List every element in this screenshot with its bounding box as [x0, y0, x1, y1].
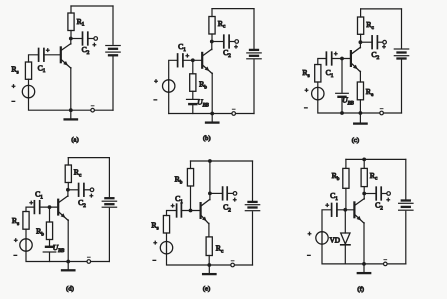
svg-text:C1: C1	[178, 42, 186, 53]
svg-text:−: −	[14, 253, 18, 260]
battery UBB (circuit d)	[43, 247, 56, 252]
wire C2 to terminal (d)	[84, 189, 90, 191]
wire battery lead top (c)	[401, 9, 403, 48]
label R1	[77, 17, 85, 28]
resistor Rb (base bias, circuit e)	[187, 161, 193, 211]
output terminal (d)	[90, 188, 94, 192]
macron above terminal (f)	[384, 259, 387, 261]
polarity - of source (e)	[152, 258, 156, 265]
circuit (e) top supply rail wire	[191, 160, 253, 162]
polarity - of source (d)	[14, 253, 18, 260]
wire battery lead top (f)	[405, 159, 407, 199]
wire battery lead bottom (a)	[112, 56, 114, 110]
bottom rail wire (f)	[364, 263, 406, 265]
node collector junction (c)	[359, 40, 363, 44]
bottom rail wire (c)	[342, 112, 402, 114]
wire source to bottom rail (a)	[29, 98, 71, 110]
resistor Rc (collector load, circuit c)	[358, 9, 364, 42]
svg-text:C2: C2	[375, 201, 383, 212]
wire base (c)	[332, 58, 351, 60]
wire collector to C2 (c)	[360, 41, 372, 43]
ground (circuit d)	[62, 262, 74, 271]
wire tap to C2 (e)	[210, 192, 223, 194]
wire battery lead top (e)	[252, 161, 254, 201]
polarity - of source (a)	[11, 99, 15, 106]
resistor Re (emitter, circuit c)	[357, 82, 363, 113]
svg-text:(b): (b)	[203, 135, 211, 142]
svg-text:(f): (f)	[357, 286, 364, 293]
polarity + of C2 (b)	[234, 44, 238, 51]
resistor Rb (base bias, circuit f)	[343, 159, 349, 209]
label C2 (d)	[78, 198, 86, 209]
svg-text:+: +	[46, 48, 50, 55]
node base junction (c)	[340, 57, 344, 61]
bottom rail wire (d)	[68, 261, 109, 263]
transistor Q (circuit e)	[201, 162, 210, 237]
transistor Q (circuit f)	[354, 194, 364, 264]
macron above terminal (b)	[232, 108, 235, 110]
capacitor C1 (input coupling, circuit b)	[178, 54, 183, 67]
node emitter junction (e)	[207, 263, 211, 267]
node base junction (e)	[189, 209, 193, 213]
node collector junction (b)	[210, 40, 214, 44]
label Rb (b)	[199, 80, 207, 91]
label Rc (d)	[74, 168, 82, 179]
caption (f)	[357, 286, 364, 293]
label C1 (c)	[326, 68, 334, 79]
label Rc (f)	[370, 171, 378, 182]
label UBB (b)	[197, 98, 208, 109]
svg-text:(c): (c)	[352, 137, 359, 144]
label Rc (c)	[366, 20, 374, 31]
signal source us (circuit e)	[160, 242, 172, 254]
bottom output terminal (f)	[384, 262, 388, 266]
wire C1 to Rs (a)	[29, 55, 39, 62]
resistor R1 (collector load, circuit a)	[68, 6, 74, 39]
wire battery lead bottom (d)	[108, 208, 110, 261]
label Rs	[11, 65, 18, 76]
svg-text:+: +	[334, 51, 338, 58]
wire source to bottom rail (c)	[318, 100, 342, 113]
label Re (c)	[366, 87, 374, 98]
label C1 (e)	[175, 194, 183, 205]
svg-text:+: +	[12, 84, 16, 91]
wire C1 to source (b)	[169, 60, 178, 80]
wire collector to C2 (a)	[71, 38, 83, 40]
output terminal (c)	[383, 40, 387, 44]
svg-text:+: +	[305, 88, 309, 95]
signal source us (circuit b)	[163, 80, 175, 92]
label C1	[38, 63, 46, 74]
svg-text:+: +	[308, 231, 312, 238]
bottom rail wire right (a)	[71, 109, 113, 111]
svg-text:C1: C1	[175, 194, 183, 205]
node collector junction (d)	[66, 188, 70, 192]
svg-text:(d): (d)	[66, 286, 74, 293]
svg-text:−: −	[304, 105, 308, 112]
polarity - of source (b)	[153, 97, 157, 104]
wire C2 to terminal (b)	[229, 41, 235, 43]
svg-text:Rc: Rc	[370, 171, 378, 182]
svg-text:+: +	[325, 203, 329, 210]
svg-text:+: +	[93, 42, 97, 49]
circuit (b) top supply rail wire	[212, 8, 254, 10]
bottom output terminal (e)	[231, 263, 235, 267]
svg-text:C2: C2	[78, 198, 86, 209]
polarity + of C2 (e)	[233, 197, 237, 204]
output terminal (e)	[233, 192, 237, 196]
polarity + of C1 (e)	[171, 203, 175, 210]
macron above terminal (e)	[231, 260, 234, 262]
wire UBB to bottom rail (b)	[192, 105, 194, 113]
signal source us (circuit a)	[22, 85, 34, 97]
node emitter junction (c)	[359, 111, 363, 115]
svg-text:+: +	[171, 203, 175, 210]
wire source to bottom rail (d)	[26, 251, 68, 261]
svg-text:Rs: Rs	[12, 216, 19, 227]
wire base (a)	[44, 54, 61, 56]
label Rc (b)	[218, 19, 226, 30]
svg-text:C2: C2	[223, 203, 231, 214]
label C1 (b)	[178, 42, 186, 53]
bottom output terminal (b)	[232, 112, 236, 116]
polarity + of source (d)	[14, 238, 18, 245]
polarity + of source (a)	[12, 84, 16, 91]
svg-text:UBB: UBB	[342, 96, 353, 107]
wire source to bottom rail (b)	[168, 92, 170, 113]
node base junction (d)	[48, 205, 52, 209]
wire battery lead bottom (c)	[401, 60, 403, 113]
caption (c)	[352, 137, 359, 144]
circuit (d) top supply rail wire	[68, 157, 109, 159]
wire Rb to UBB (b)	[192, 91, 194, 98]
diode VD (circuit f)	[341, 233, 350, 264]
wire base (e)	[181, 210, 200, 212]
label C2	[82, 45, 90, 56]
node emitter junction (d)	[66, 260, 70, 264]
wire battery lead top (b)	[253, 9, 255, 49]
ground (circuit b)	[206, 114, 218, 123]
battery UCC (circuit d)	[102, 198, 116, 207]
wire Rb column (b)	[192, 60, 194, 74]
label C1 (d)	[35, 190, 43, 201]
macron above terminal (d)	[87, 256, 90, 258]
svg-text:R1: R1	[77, 17, 85, 28]
svg-text:(e): (e)	[203, 286, 210, 293]
polarity + of C2 (f)	[386, 197, 390, 204]
svg-text:C1: C1	[326, 68, 334, 79]
svg-text:+: +	[382, 44, 386, 51]
svg-text:−: −	[11, 99, 15, 106]
wire C2 to terminal (f)	[381, 193, 387, 195]
battery UBB (circuit b)	[187, 99, 200, 104]
polarity + of source (e)	[153, 240, 157, 247]
node emitter junction (a)	[69, 108, 73, 112]
label Rs (d)	[12, 216, 19, 227]
wire C1 to Rs (d)	[26, 207, 34, 211]
resistor Rb (base bias, circuit b)	[190, 74, 196, 92]
battery UCC (circuit b)	[247, 50, 261, 59]
node collector junction (f)	[362, 192, 366, 196]
resistor Rb (base bias, circuit d)	[46, 222, 52, 240]
capacitor C1 (input coupling, circuit e)	[177, 204, 182, 217]
capacitor C2 (output coupling, circuit a)	[83, 32, 88, 45]
label UBB (c)	[342, 96, 353, 107]
svg-text:−: −	[307, 253, 311, 260]
svg-text:Rs: Rs	[151, 221, 158, 232]
caption (b)	[203, 135, 211, 142]
svg-text:VD: VD	[330, 236, 340, 244]
caption (d)	[66, 286, 74, 293]
capacitor C2 (output coupling, circuit c)	[372, 36, 377, 49]
wire base to UBB (c)	[341, 59, 343, 93]
svg-text:Rc: Rc	[218, 19, 226, 30]
node collector junction (a)	[69, 37, 73, 41]
polarity + of source (b)	[154, 79, 158, 86]
svg-text:+: +	[186, 53, 190, 60]
wire base (d)	[40, 206, 59, 208]
resistor Rc (emitter position, circuit e)	[206, 237, 212, 265]
node UBB-rail junction (c)	[340, 111, 344, 115]
label C2 (b)	[223, 48, 231, 59]
capacitor C2 (output coupling, circuit b)	[224, 35, 229, 48]
polarity + of C1 (d)	[29, 200, 33, 207]
label Rb (e)	[175, 175, 183, 186]
svg-text:C2: C2	[223, 48, 231, 59]
macron above terminal (a)	[91, 105, 94, 107]
bottom output terminal (a)	[91, 108, 95, 112]
transistor Q (circuit a)	[61, 39, 71, 110]
resistor Rs (source resistance, circuit c)	[315, 65, 321, 88]
svg-text:C1: C1	[330, 191, 338, 202]
label C1 (f)	[330, 191, 338, 202]
polarity + of C1 (b)	[186, 53, 190, 60]
wire C2 to terminal (e)	[227, 192, 233, 194]
caption (e)	[203, 286, 210, 293]
label Rb (d)	[36, 227, 44, 238]
wire collector to C2 (b)	[212, 41, 224, 43]
label C2 (c)	[371, 50, 379, 61]
node C2 tap junction (e)	[208, 192, 212, 196]
transistor Q (circuit b)	[202, 42, 212, 114]
output terminal (a)	[94, 37, 98, 41]
capacitor C1 (input coupling, circuit c)	[326, 52, 331, 65]
wire collector to C2 (f)	[364, 193, 376, 195]
node Rc-rail junction (f)	[362, 158, 366, 162]
wire C1 to Rs (c)	[318, 59, 327, 65]
resistor Rc (collector load, circuit b)	[209, 9, 215, 42]
battery UCC (circuit f)	[399, 201, 413, 211]
polarity + of C1 (f)	[325, 203, 329, 210]
wire collector to C2 (d)	[68, 189, 79, 191]
polarity + of source (f)	[308, 231, 312, 238]
capacitor C1 (input coupling, circuit a)	[39, 49, 44, 62]
svg-text:Rs: Rs	[302, 68, 309, 79]
svg-text:+: +	[153, 240, 157, 247]
transistor Q (circuit c)	[351, 43, 361, 82]
svg-text:Rc: Rc	[366, 20, 374, 31]
wire base to Rb (d)	[49, 207, 51, 222]
node base junction (b)	[191, 58, 195, 62]
wire Rb to UBB (d)	[49, 240, 51, 246]
svg-text:Re: Re	[366, 87, 374, 98]
ground (circuit a)	[65, 110, 77, 119]
bottom rail wire (b)	[169, 113, 254, 115]
wire battery lead bottom (e)	[252, 212, 254, 265]
svg-text:Rc: Rc	[74, 168, 82, 179]
wire source to bottom rail (f)	[322, 244, 364, 264]
node emitter junction (b)	[210, 112, 214, 116]
svg-text:−: −	[152, 258, 156, 265]
wire base (b)	[183, 59, 202, 61]
ground (circuit e)	[203, 265, 215, 274]
output terminal (f)	[387, 192, 391, 196]
circuit (f) top supply rail wire	[346, 158, 406, 160]
battery UCC (circuit c)	[394, 49, 408, 59]
label Rs (e)	[151, 221, 158, 232]
svg-text:+: +	[234, 44, 238, 51]
signal source us (circuit d)	[20, 239, 32, 251]
svg-text:C1: C1	[38, 63, 46, 74]
circuit (c) top supply rail wire	[361, 8, 402, 10]
polarity + of C2 (c)	[382, 44, 386, 51]
resistor Rc (collector load, circuit d)	[65, 158, 71, 190]
ground (circuit f)	[358, 264, 370, 273]
bottom output terminal (c)	[380, 111, 384, 115]
svg-text:−: −	[153, 97, 157, 104]
svg-text:Rb: Rb	[36, 227, 44, 238]
battery UBB (circuit c)	[336, 93, 349, 97]
resistor Rc (collector load, circuit f)	[361, 159, 367, 193]
polarity + of C2 (d)	[90, 193, 94, 200]
wire C1 to Rs (e)	[167, 211, 177, 216]
bottom output terminal (d)	[87, 260, 91, 264]
node base junction (f)	[343, 208, 347, 212]
node emitter junction (f)	[362, 262, 366, 266]
resistor Rs (source resistance, circuit e)	[163, 216, 169, 242]
bottom rail wire (e)	[209, 264, 252, 266]
capacitor C2 (output coupling, circuit f)	[376, 187, 381, 200]
wire C1 to source (f)	[322, 210, 332, 232]
signal source us (circuit f)	[316, 232, 328, 244]
battery UCC (circuit a)	[106, 46, 120, 56]
polarity + of C1 (c)	[334, 51, 338, 58]
svg-text:+: +	[233, 197, 237, 204]
battery UCC (circuit e)	[245, 202, 259, 211]
svg-text:+: +	[154, 79, 158, 86]
capacitor C2 (output coupling, circuit e)	[223, 187, 228, 200]
label Rs (c)	[302, 68, 309, 79]
wire C2 to output terminal (a)	[88, 38, 94, 40]
label UBB (d)	[53, 243, 64, 254]
label C2 (e)	[223, 203, 231, 214]
signal source us (circuit c)	[312, 87, 324, 99]
macron above terminal (c)	[380, 108, 383, 110]
polarity + of source (c)	[305, 88, 309, 95]
wire UBB to bottom rail (d)	[49, 253, 51, 262]
wire battery lead bottom (f)	[405, 211, 407, 264]
svg-text:Rb: Rb	[175, 175, 183, 186]
polarity - of source (c)	[304, 105, 308, 112]
svg-text:+: +	[90, 193, 94, 200]
ground (circuit c)	[354, 113, 366, 124]
svg-text:C1: C1	[35, 190, 43, 201]
label Rb (f)	[332, 171, 340, 182]
wire C2 to terminal (c)	[377, 41, 382, 43]
node collector-rail junction (e)	[208, 159, 212, 163]
transistor Q (circuit d)	[58, 191, 68, 262]
wire battery lead top (a)	[112, 6, 114, 44]
capacitor C2 (output coupling, circuit d)	[79, 184, 84, 197]
label Rc (e)	[216, 244, 224, 255]
label C2 (f)	[375, 201, 383, 212]
polarity - of source (f)	[307, 253, 311, 260]
svg-text:Rc: Rc	[216, 244, 224, 255]
svg-text:C2: C2	[82, 45, 90, 56]
svg-text:Rb: Rb	[332, 171, 340, 182]
svg-text:UBB: UBB	[197, 98, 208, 109]
resistor Rs (source resistance, circuit d)	[23, 212, 29, 239]
circuit (a) top supply rail wire	[71, 5, 113, 7]
svg-text:+: +	[14, 238, 18, 245]
capacitor C1 (input coupling, circuit f)	[332, 204, 337, 217]
output terminal (b)	[235, 40, 239, 44]
wire source to bottom rail (e)	[167, 254, 210, 265]
wire battery lead top (d)	[108, 158, 110, 198]
wire battery lead bottom (b)	[253, 60, 255, 114]
polarity + of C1 (a)	[46, 48, 50, 55]
svg-text:+: +	[29, 200, 33, 207]
resistor Rs (source resistance, circuit a)	[25, 62, 31, 86]
svg-text:C2: C2	[371, 50, 379, 61]
label VD	[330, 236, 340, 244]
wire base (f)	[337, 209, 354, 211]
svg-text:Rb: Rb	[199, 80, 207, 91]
capacitor C1 (input coupling, circuit d)	[34, 201, 39, 214]
svg-text:Rs: Rs	[11, 65, 18, 76]
polarity + of C2 (a)	[93, 42, 97, 49]
wire base to diode (f)	[344, 210, 346, 233]
svg-text:(a): (a)	[71, 137, 78, 144]
wire UBB to bottom rail (c)	[341, 98, 343, 113]
caption (a)	[71, 137, 78, 144]
svg-text:+: +	[386, 197, 390, 204]
